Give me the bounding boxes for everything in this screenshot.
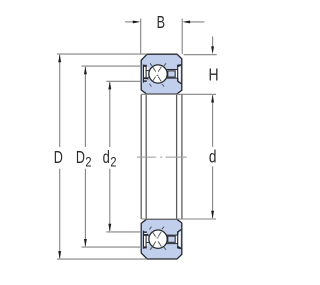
svg-text:2: 2 bbox=[110, 154, 116, 169]
d2 dimension line lower bbox=[109, 169, 111, 231]
d2 top extension line bbox=[106, 80, 141, 82]
d2 top arrowhead bbox=[108, 82, 111, 90]
B left arrowhead bbox=[133, 20, 141, 23]
svg-text:B: B bbox=[157, 13, 165, 33]
bottom ring cross-section (mirror) bbox=[141, 219, 182, 259]
B left arrow tail bbox=[125, 21, 137, 23]
svg-text:d: d bbox=[103, 148, 110, 167]
D2 bottom arrowhead bbox=[84, 239, 87, 247]
B right arrowhead bbox=[182, 20, 190, 23]
top ring cross-section bbox=[141, 54, 182, 94]
svg-text:D: D bbox=[54, 148, 63, 168]
bore chamfer edge line left bbox=[145, 94, 147, 218]
bore top extension line bbox=[141, 93, 216, 95]
d2 dimension line upper bbox=[109, 82, 111, 147]
svg-text:D: D bbox=[76, 148, 85, 168]
D2 dimension line lower bbox=[84, 169, 86, 247]
D dimension line upper bbox=[59, 55, 61, 147]
bore silhouette line left face bbox=[140, 94, 142, 218]
H upper arrow stem bbox=[212, 36, 214, 47]
B left extension line bbox=[140, 19, 142, 54]
dimension styling bbox=[57, 19, 217, 260]
D bottom arrowhead bbox=[58, 251, 61, 259]
D top arrowhead bbox=[58, 54, 61, 62]
D2 dimension line upper bbox=[84, 67, 86, 147]
bore bottom extension line bbox=[141, 218, 216, 220]
d top arrowhead bbox=[211, 95, 214, 103]
svg-text:2: 2 bbox=[85, 154, 91, 169]
D2 top arrowhead bbox=[84, 66, 87, 74]
d2 bottom extension line bbox=[106, 231, 141, 233]
svg-text:H: H bbox=[209, 66, 219, 85]
B right extension line bbox=[181, 19, 183, 54]
d bottom arrowhead bbox=[211, 211, 214, 219]
D bottom extension line bbox=[57, 258, 147, 260]
arrowheads bbox=[58, 20, 214, 258]
D dimension line lower bbox=[59, 169, 61, 259]
bore silhouette line right face bbox=[181, 94, 183, 218]
D top extension line bbox=[57, 53, 147, 55]
d dimension line lower bbox=[212, 166, 214, 218]
D2 top extension line bbox=[82, 65, 142, 67]
d2 bottom arrowhead bbox=[108, 224, 111, 232]
B right arrow tail bbox=[186, 21, 204, 23]
H top extension line bbox=[184, 54, 217, 56]
H upper arrowhead bbox=[211, 46, 214, 54]
centerline axis dash-dot bbox=[137, 156, 187, 158]
svg-text:d: d bbox=[209, 148, 217, 167]
d dimension line upper bbox=[212, 95, 214, 147]
D2 bottom extension line bbox=[82, 246, 142, 248]
bore chamfer edge line right bbox=[176, 94, 178, 218]
